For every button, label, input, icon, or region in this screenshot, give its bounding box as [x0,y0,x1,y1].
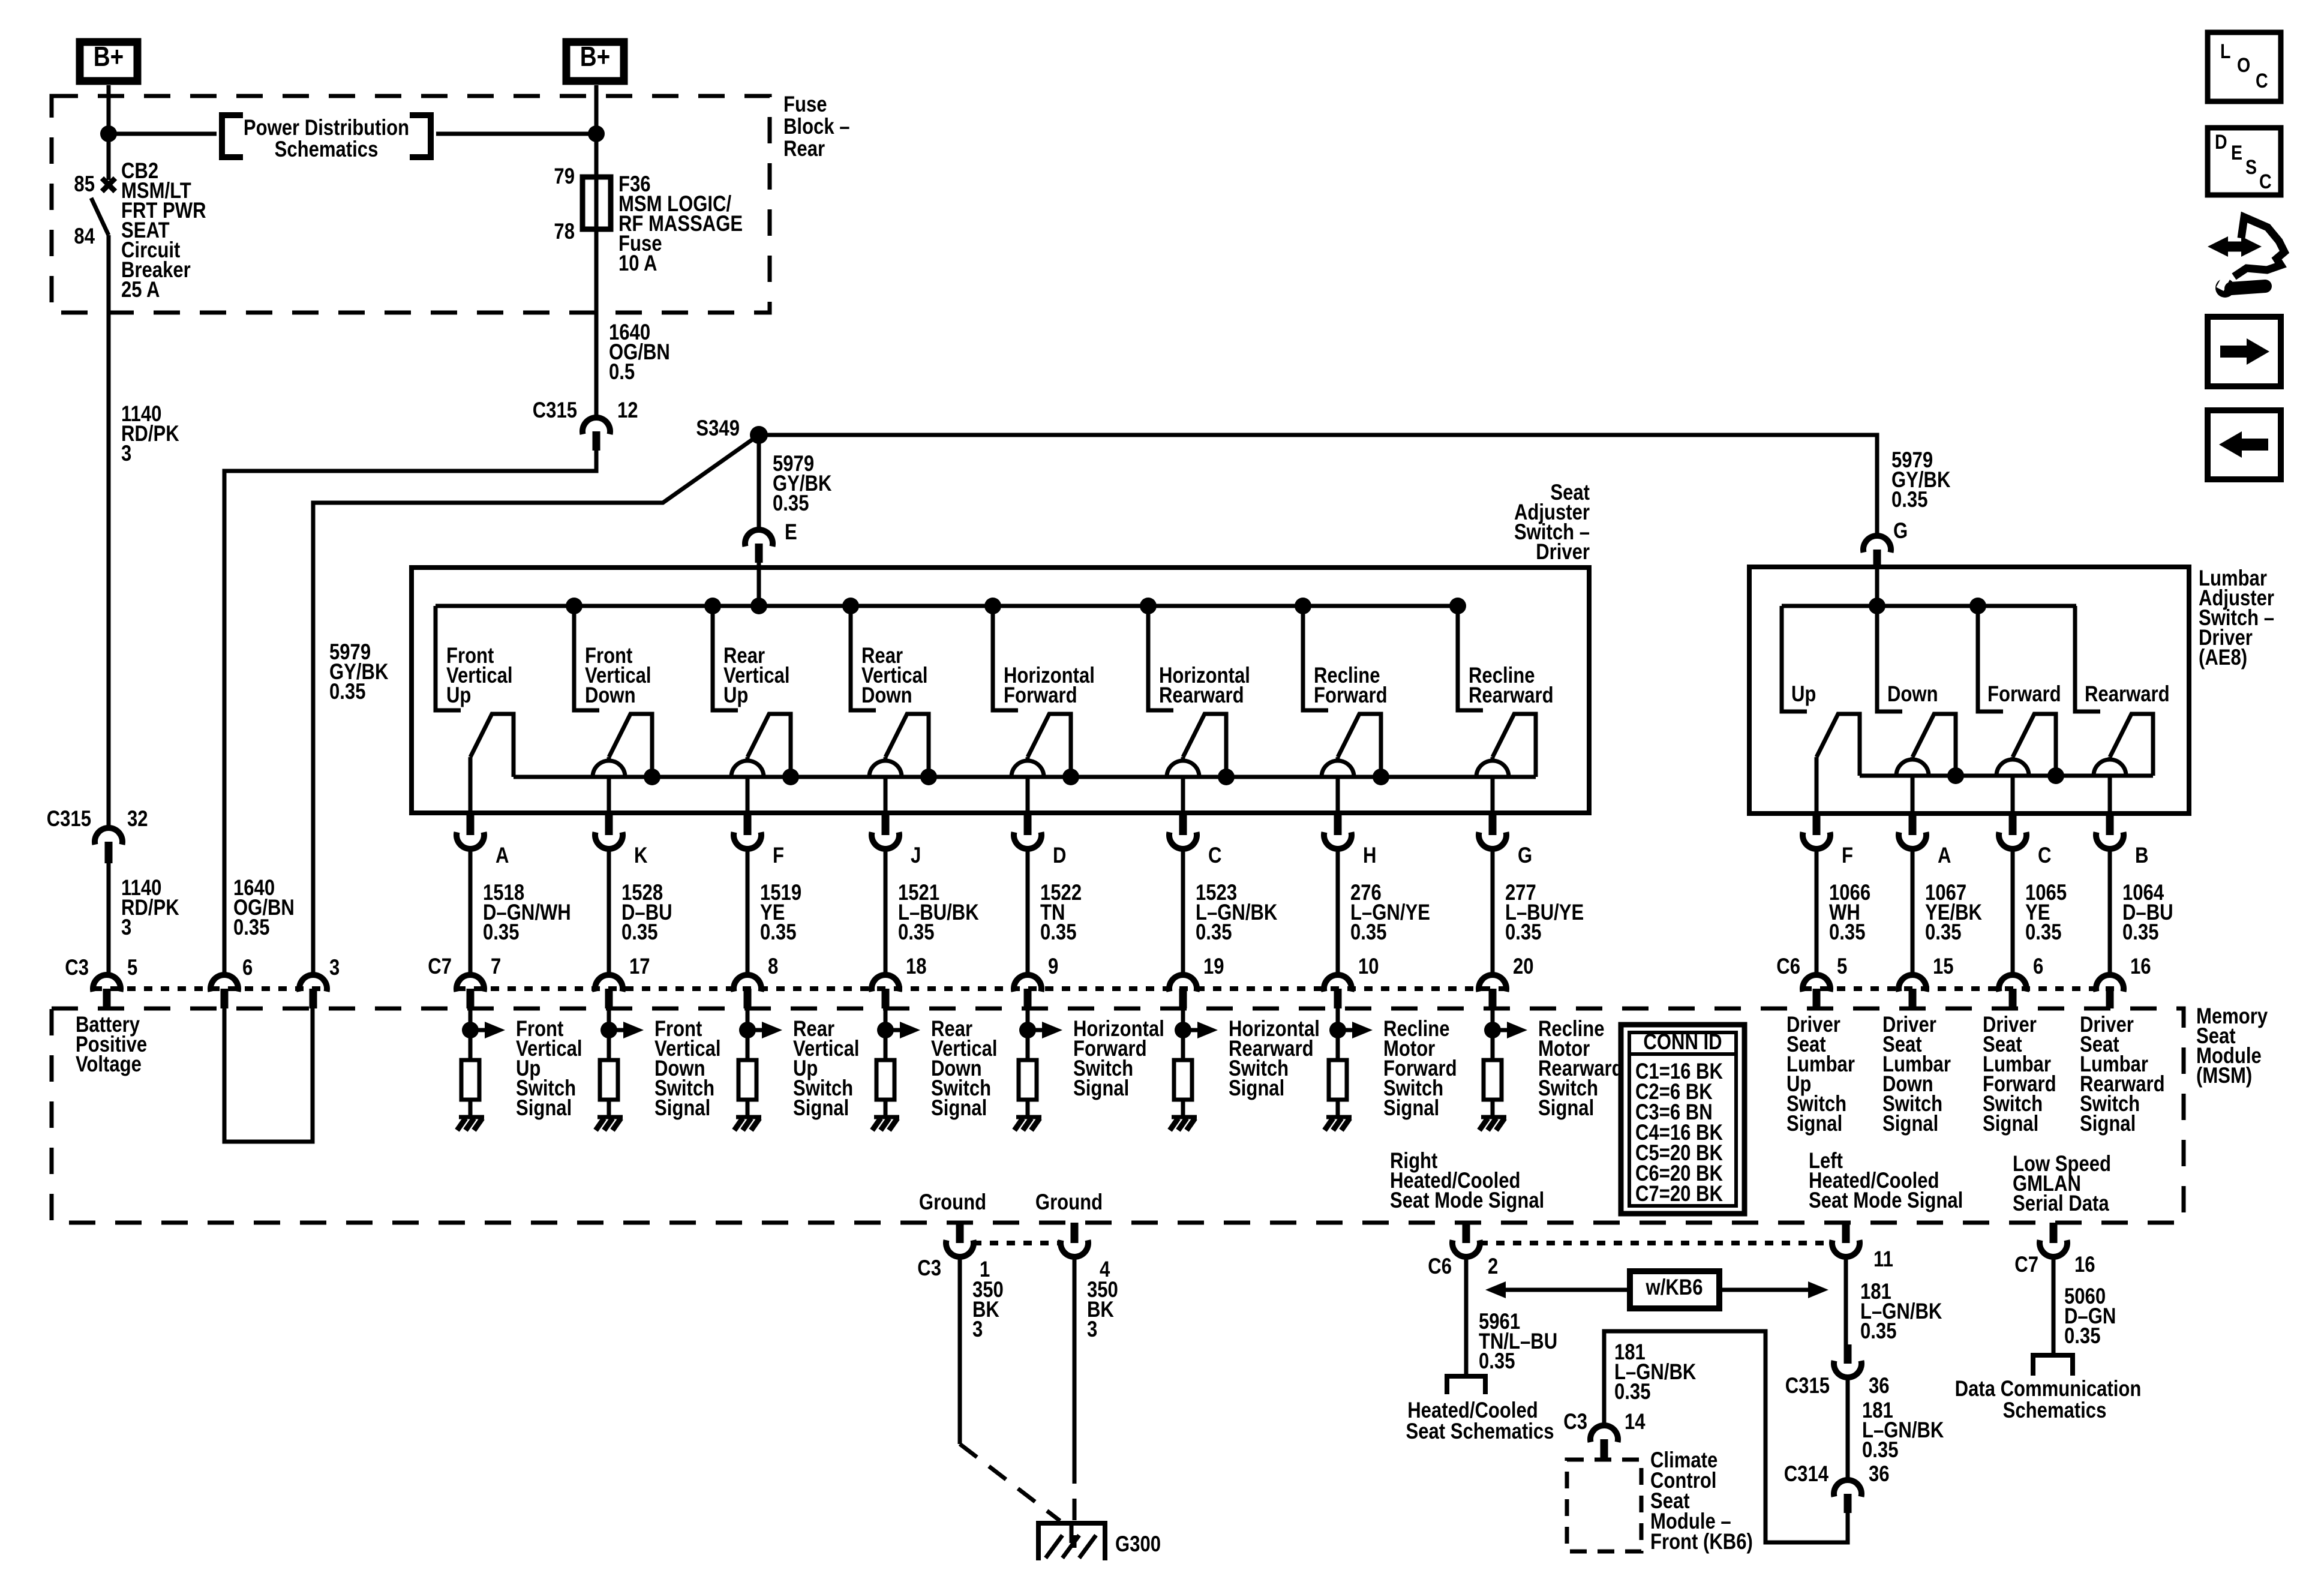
icon arrow left [2208,410,2281,479]
connector C3 pin 14 (climate) [1590,1425,1618,1460]
label pin 2 [1488,1254,1498,1279]
label Rear Vertical Up [723,644,790,708]
label Low Speed GMLAN Serial Data [2013,1152,2111,1216]
svg-text:0.35: 0.35 [1505,920,1541,945]
ground (internal) 7 [457,1117,484,1130]
label 1064 D–BU 0.35 [2122,881,2173,945]
svg-text:D: D [1053,843,1066,868]
node MSM 19 [1175,1022,1191,1038]
ground (internal) 17 [596,1117,623,1130]
label pin H [1363,843,1376,868]
wire MSM input 9 [1026,1008,1030,1060]
label 79 [554,164,575,189]
node MSM 7 [462,1022,479,1038]
label 350 BK 3 (pin 4) [1087,1278,1118,1342]
label Recline Forward [1314,664,1388,708]
svg-text:10 A: 10 A [618,251,657,276]
label 84 [74,224,95,249]
node bus at Recline Rearward [1449,598,1466,614]
svg-text:w/KB6: w/KB6 [1646,1275,1703,1300]
svg-text:(MSM): (MSM) [2196,1064,2252,1088]
svg-text:Up: Up [723,683,748,708]
icon wiring repair (arrow + wrench) [2208,217,2284,298]
svg-text:C6: C6 [1776,954,1800,979]
wire MSM input 18 [884,1008,888,1060]
svg-text:Signal: Signal [1073,1076,1129,1101]
svg-text:0.5: 0.5 [609,360,635,385]
connector MSM C7-18 [872,975,899,1008]
svg-text:J: J [911,843,921,868]
label MSM pin 10 [1358,954,1379,979]
node MSM 9 [1019,1022,1036,1038]
connector pin A (lumbar Down) [1899,813,1926,849]
svg-text:3: 3 [121,442,131,466]
connector pin F (lumbar Up) [1803,813,1830,849]
wire 1640 OG/BN to C3-6 [224,451,596,975]
svg-text:Schematics: Schematics [2003,1398,2107,1423]
icon LOC [2208,32,2281,101]
resistor Rear Vertical Down Switch Signal [876,1060,894,1100]
switch S8 Recline Rearward: fixed contact [1458,606,1483,710]
label Driver Seat Lumbar Forward Switch Signal [1983,1013,2056,1136]
wire 5961 TN/L-BU [1464,1256,1469,1376]
node bottom bus at switch S2 [644,769,660,785]
svg-text:Up: Up [446,683,471,708]
svg-text:Voltage: Voltage [76,1052,142,1077]
wire resistor to ground 8 [746,1100,750,1117]
wire output Recline Forward with hop [1322,757,1354,813]
label 276 L–GN/YE 0.35 [1350,881,1430,945]
label G300 [1115,1532,1161,1557]
wire output Front Vertical Down with hop [593,757,625,813]
label Front Vertical Down [585,644,651,708]
label Seat Adjuster Switch - Driver [1514,481,1590,565]
svg-text:B+: B+ [580,41,610,72]
label pin 6 [242,956,253,980]
switch S6 Horizontal Rearward: fixed contact [1148,606,1173,710]
svg-text:0.35: 0.35 [1040,920,1076,945]
label 1066 WH 0.35 [1829,881,1870,945]
wire 1067 YE/BK [1911,849,1915,975]
svg-text:Signal: Signal [793,1096,849,1121]
label G [1893,519,1908,544]
label Rear Vertical Up Switch Signal [793,1017,860,1121]
label 5979 GY/BK 0.35 (left) [329,640,389,704]
label E [785,520,797,545]
wire 5979 GY/BK from S349 to C3-3 [313,435,759,975]
wire lumbar output Rearward with hop [2094,757,2126,813]
label pin J [911,843,921,868]
svg-text:3: 3 [329,956,340,980]
connector pin G (Recline Rearward) [1479,813,1506,849]
node bus at Horizontal Rearward [1140,598,1157,614]
node bus at Rear Vertical Down [842,598,859,614]
svg-text:C6: C6 [1428,1254,1452,1279]
resistor Recline Motor Forward Switch Signal [1329,1060,1347,1100]
svg-text:0.35: 0.35 [1891,488,1927,512]
arrow Front Vertical Down Switch Signal [609,1022,644,1038]
label Lumbar Adjuster Switch - Driver (AE8) [2199,566,2274,670]
connector C3 pin 6 [211,975,238,1008]
label Left Heated/Cooled Seat Mode Signal [1809,1149,1963,1213]
label pin G [1518,843,1532,868]
svg-text:15: 15 [1933,954,1954,979]
label pin F [1842,843,1853,868]
svg-text:Seat Schematics: Seat Schematics [1406,1419,1554,1444]
connector MSM C6-16 [2096,975,2124,1008]
wire resistor to ground 17 [607,1100,611,1117]
svg-text:32: 32 [127,807,148,831]
wire 1064 D–BU [2108,849,2112,975]
label Recline Motor Rearward Switch Signal [1538,1017,1623,1121]
svg-text:C7: C7 [428,954,452,979]
connector E [745,530,773,563]
label S349 [696,416,740,441]
svg-text:84: 84 [74,224,95,249]
svg-text:(AE8): (AE8) [2199,646,2247,670]
table CONN ID [1621,1025,1744,1214]
svg-text:0.35: 0.35 [233,915,269,940]
node lumbar bottom bus C [2047,767,2064,784]
connector MSM C7-19 [1169,975,1197,1008]
lumbar adjuster switch - driver (box) [1749,567,2189,813]
connector MSM C7-9 [1014,975,1041,1008]
svg-text:6: 6 [242,956,253,980]
svg-text:0.35: 0.35 [1829,920,1865,945]
connector line bottom C3 (dotted) [973,1241,1061,1245]
resistor Horizontal Forward Switch Signal [1019,1060,1037,1100]
svg-text:B: B [2135,843,2148,868]
label 85 [74,172,95,197]
node bottom bus at switch S3 [782,769,799,785]
wire loop pin6 to pin3 inside MSM [224,1008,313,1142]
wire E into seat adjuster switch [757,563,761,606]
svg-text:0.35: 0.35 [898,920,934,945]
switch S6 blade [1183,714,1226,777]
svg-text:6: 6 [2033,954,2043,979]
svg-text:C315: C315 [1785,1374,1830,1398]
ground (internal) 20 [1479,1117,1506,1130]
wire 350 BK (pin 1) dashed to G300 [960,1444,1060,1521]
lumbar switch Up: fixed contact [1782,606,1807,712]
wire MSM input 8 [746,1008,750,1060]
svg-text:C3: C3 [65,956,89,980]
label C6 (top) [1776,954,1800,979]
label Recline Rearward [1469,664,1554,708]
svg-text:S349: S349 [696,416,740,441]
svg-text:F: F [1842,843,1853,868]
label C3 (ground) [917,1256,941,1281]
label MSM pin 19 [1203,954,1224,979]
arrow Rear Vertical Up Switch Signal [747,1022,782,1038]
svg-text:0.35: 0.35 [2025,920,2061,945]
label Data Communication Schematics [1955,1377,2142,1423]
svg-text:0.35: 0.35 [773,491,809,516]
svg-text:Ground: Ground [1035,1190,1103,1215]
svg-text:C: C [2038,843,2051,868]
connector MSM pin 11 [1832,1223,1860,1257]
switch S7 Recline Forward: fixed contact [1303,606,1328,710]
svg-text:3: 3 [1087,1317,1097,1342]
label 5060 D-GN 0.35 [2064,1284,2116,1349]
wire 1528 D–BU [607,849,611,975]
connector pin D (Horizontal Forward) [1014,813,1041,849]
label C314 [1784,1462,1828,1487]
connector G [1863,536,1891,569]
svg-text:Serial Data: Serial Data [2013,1191,2110,1216]
svg-text:2: 2 [1488,1254,1498,1279]
label F36 MSM LOGIC/ RF MASSAGE Fuse 10 A [618,172,743,276]
svg-text:5: 5 [127,956,137,980]
connector C3 pin 4 (ground) [1061,1223,1088,1257]
label Rear Vertical Down [861,644,928,708]
svg-text:17: 17 [629,954,650,979]
label Rearward [2085,682,2170,707]
wire 1518 D–GN/WH [469,849,473,975]
svg-text:16: 16 [2130,954,2151,979]
svg-text:0.35: 0.35 [1196,920,1232,945]
label Fuse Block - Rear [783,92,850,161]
label 5979 GY/BK 0.35 (lumbar) [1891,448,1951,512]
svg-text:Seat Mode Signal: Seat Mode Signal [1390,1188,1544,1213]
svg-text:C: C [2256,70,2268,92]
svg-text:Ground: Ground [919,1190,986,1215]
wire resistor to ground 7 [469,1100,473,1117]
wire 1065 YE [2011,849,2015,975]
label Climate Control Seat Module - Front (KB6) [1650,1448,1753,1554]
connector C315 pin 32 [95,828,122,863]
svg-text:3: 3 [972,1317,983,1342]
label pin 1 [980,1257,990,1282]
resistor Horizontal Rearward Switch Signal [1174,1060,1192,1100]
label 181 L-GN/BK 0.35 (climate) [1614,1340,1697,1404]
label pin 14 [1625,1410,1646,1434]
label C315 (pin 12) [533,398,577,423]
svg-text:7: 7 [491,954,501,979]
wire lumbar output Forward with hop [1996,757,2029,813]
label 1523 L–GN/BK 0.35 [1196,881,1278,945]
switch S3 Rear Vertical Up: fixed contact [713,606,738,710]
node MSM 18 [877,1022,894,1038]
svg-text:Signal: Signal [1983,1112,2038,1136]
svg-text:14: 14 [1625,1410,1646,1434]
label C7 (pin 16) [2014,1253,2038,1277]
label Up [1791,682,1816,707]
wire 1523 L–GN/BK [1181,849,1185,975]
switch S3 blade [747,714,791,777]
label MSM pin 6 [2033,954,2043,979]
wire CB2 to C315-32 [107,235,111,828]
wire 181 L-GN/BK (upper) [1844,1256,1848,1344]
svg-text:Down: Down [585,683,636,708]
label 78 [554,220,575,244]
connector pin J (Rear Vertical Down) [872,813,899,849]
svg-text:C315: C315 [47,807,91,831]
tag w/KB6 [1630,1271,1719,1308]
connector C6 pin 2 [1452,1223,1480,1257]
connector line C3 (dotted) [94,986,326,991]
label C3 (climate) [1563,1410,1587,1434]
svg-text:Signal: Signal [1882,1112,1938,1136]
lumbar switch Rearward blade [2110,714,2153,776]
label pin K [634,843,648,868]
svg-text:0.35: 0.35 [2122,920,2158,945]
label MSM pin 17 [629,954,650,979]
wire resistor to ground 9 [1026,1100,1030,1117]
connector pin H (Recline Forward) [1324,813,1352,849]
arrow Recline Motor Forward Switch Signal [1338,1022,1373,1038]
svg-text:Signal: Signal [654,1096,710,1121]
label pin F [773,843,784,868]
wire MSM input 10 [1336,1008,1340,1060]
node bottom bus at switch S6 [1218,769,1235,785]
off-page ref data communication [2033,1355,2073,1376]
label pin B [2135,843,2148,868]
lumbar output bus [1860,774,2153,778]
svg-text:10: 10 [1358,954,1379,979]
connector pin C (lumbar Forward) [1999,813,2026,849]
svg-text:Forward: Forward [1314,683,1388,708]
label 277 L–BU/YE 0.35 [1505,881,1584,945]
wire 1066 WH [1815,849,1819,975]
label pin C [2038,843,2051,868]
svg-text:G: G [1893,519,1908,544]
connector C315 pin 12 [582,418,610,451]
svg-text:36: 36 [1869,1374,1890,1398]
label 1067 YE/BK 0.35 [1925,881,1982,945]
label CB2 MSM/LT FRT PWR SEAT Circuit Breaker 25 A [121,159,206,302]
svg-text:79: 79 [554,164,575,189]
label Driver Seat Lumbar Down Switch Signal [1882,1013,1951,1136]
svg-text:Down: Down [1887,682,1938,707]
off-page ref heated/cooled seat [1447,1376,1485,1394]
svg-text:0.35: 0.35 [760,920,796,945]
lumbar switch Rearward: fixed contact [2075,606,2100,712]
wire resistor to ground 10 [1336,1100,1340,1117]
svg-text:5: 5 [1837,954,1847,979]
svg-text:20: 20 [1513,954,1534,979]
power symbol B+ (right) [566,41,624,81]
svg-text:18: 18 [906,954,927,979]
svg-text:Up: Up [1791,682,1816,707]
svg-text:C7=20 BK: C7=20 BK [1635,1182,1723,1206]
ground (internal) 10 [1325,1117,1352,1130]
node bus at Front Vertical Down [566,598,582,614]
ground (internal) 18 [872,1117,899,1130]
connector MSM C6-15 [1899,975,1926,1008]
arrow Horizontal Rearward Switch Signal [1183,1022,1218,1038]
connector pin F (Rear Vertical Up) [734,813,761,849]
label 5979 GY/BK 0.35 (E branch) [773,452,832,516]
arrow Front Vertical Up Switch Signal [470,1022,505,1038]
switch S1 blade [470,714,514,777]
connector line C7 (dotted) [457,986,1507,991]
node lumbar bottom bus A [1947,767,1964,784]
label MSM pin 7 [491,954,501,979]
switch S7 blade [1338,714,1381,777]
arrow Recline Motor Rearward Switch Signal [1493,1022,1527,1038]
label pin 3 [329,956,340,980]
wire MSM input 7 [469,1008,473,1060]
label Power Distribution Schematics [222,115,431,162]
svg-text:B+: B+ [94,41,124,72]
svg-text:Front (KB6): Front (KB6) [1650,1530,1753,1554]
climate control seat module (dashed box) [1567,1460,1641,1551]
svg-text:Schematics: Schematics [275,137,379,162]
svg-text:0.35: 0.35 [2064,1324,2100,1349]
switch S4 blade [885,714,929,777]
connector pin C (Horizontal Rearward) [1169,813,1197,849]
switch S8 blade [1493,714,1536,777]
wire 277 L–BU/YE [1491,849,1495,975]
memory seat module (dashed box) [52,1008,2184,1223]
wire bus to Power Distribution bracket [109,132,217,136]
label 181 L-GN/BK 0.35 (pin 11) [1860,1280,1942,1344]
connector pin B (lumbar Rearward) [2096,813,2124,849]
svg-text:25 A: 25 A [121,278,160,302]
resistor Rear Vertical Up Switch Signal [738,1060,756,1100]
svg-text:Driver: Driver [1536,540,1590,565]
wire bracket to F36 [436,132,596,136]
switch S5 Horizontal Forward: fixed contact [993,606,1018,710]
wire 1519 YE [746,849,750,975]
label MSM pin 9 [1048,954,1058,979]
node E at switch bus [750,598,767,614]
wire resistor to ground 19 [1181,1100,1185,1117]
label 12 [617,398,638,423]
svg-text:9: 9 [1048,954,1058,979]
label Horizontal Forward Switch Signal [1073,1017,1164,1101]
arrow Horizontal Forward Switch Signal [1028,1022,1062,1038]
wire MSM input 19 [1181,1008,1185,1060]
wire B+ right to F36 [594,85,599,418]
svg-text:C7: C7 [2014,1253,2038,1277]
node G at lumbar bus [1869,598,1885,614]
label MSM pin 15 [1933,954,1954,979]
svg-text:Signal: Signal [1383,1096,1439,1121]
svg-text:0.35: 0.35 [1860,1319,1896,1344]
label Rear Vertical Down Switch Signal [931,1017,998,1121]
label Horizontal Rearward [1159,664,1250,708]
svg-text:Rear: Rear [783,137,825,161]
connector MSM C6-6 [1999,975,2026,1008]
connector MSM C6-5 [1803,975,1830,1008]
label 1521 L–BU/BK 0.35 [898,881,979,945]
wire output Recline Rearward with hop [1476,757,1509,813]
label pin A [496,843,509,868]
switch common bus (top) [436,604,1458,608]
label MSM pin 5 [1837,954,1847,979]
svg-text:C3: C3 [1563,1410,1587,1434]
svg-text:Down: Down [861,683,912,708]
wire S349 to lumbar switch [759,435,1877,536]
label Front Vertical Up Switch Signal [516,1017,582,1121]
svg-text:O: O [2237,54,2250,77]
label Right Heated/Cooled Seat Mode Signal [1390,1149,1544,1213]
label 350 BK 3 (pin 1) [972,1278,1004,1342]
svg-text:G300: G300 [1115,1532,1161,1557]
label Ground (pin 4) [1035,1190,1103,1215]
svg-text:11: 11 [1873,1247,1893,1272]
node MSM 20 [1484,1022,1501,1038]
connector MSM C7 pin 16 [2040,1223,2067,1257]
wire S349 to E [757,435,761,530]
label 5961 TN/L-BU 0.35 [1479,1310,1557,1374]
wire resistor to ground 20 [1491,1100,1495,1117]
svg-text:0.35: 0.35 [1614,1380,1650,1404]
svg-text:16: 16 [2074,1253,2095,1277]
label Recline Motor Forward Switch Signal [1383,1017,1457,1121]
